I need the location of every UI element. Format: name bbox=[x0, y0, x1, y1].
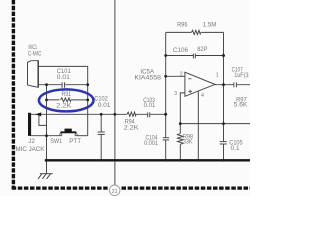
wire op-amp pin3 bbox=[180, 93, 185, 124]
wire pin4 column bbox=[197, 91, 199, 160]
wire node A column bbox=[46, 85, 48, 136]
svg-text:5.6K: 5.6K bbox=[234, 102, 248, 109]
node W1 x long line bbox=[114, 113, 117, 116]
wire feedback top row bbox=[166, 31, 224, 33]
capacitor C103 bbox=[147, 112, 150, 117]
svg-text:1uF(3: 1uF(3 bbox=[234, 72, 249, 79]
resistor R98 bbox=[177, 133, 183, 144]
node bus R98 bbox=[179, 159, 182, 162]
svg-text:J2: J2 bbox=[28, 138, 35, 145]
node bias right bbox=[222, 122, 225, 125]
node C103 out bbox=[164, 113, 167, 116]
svg-text:KIA4558: KIA4558 bbox=[134, 74, 161, 81]
switch SW1 button bbox=[60, 129, 76, 134]
resistor R94 bbox=[127, 112, 136, 117]
op-amp U=IC5A triangle bbox=[185, 72, 215, 96]
svg-text:C106: C106 bbox=[173, 47, 188, 54]
svg-text:4: 4 bbox=[201, 93, 204, 99]
svg-text:C-MIC: C-MIC bbox=[28, 50, 42, 57]
wire R91 row bbox=[47, 99, 88, 101]
wire output row bbox=[215, 84, 250, 86]
wire feedback left column bbox=[165, 32, 167, 160]
svg-text:3: 3 bbox=[174, 91, 177, 97]
microphone MIC1 symbol bbox=[28, 61, 39, 88]
node pin2 bbox=[164, 75, 167, 78]
wire op-amp pin2 bbox=[166, 75, 185, 77]
jack J2 sleeve bar bbox=[28, 113, 31, 136]
svg-text:33K: 33K bbox=[183, 138, 193, 145]
jack tip contact hook bbox=[39, 116, 47, 126]
wire R98 column bbox=[179, 124, 181, 161]
node bias left bbox=[179, 122, 182, 125]
node C106 right bbox=[222, 54, 225, 57]
jack tip contact arrow bbox=[35, 112, 41, 116]
svg-text:R96: R96 bbox=[177, 21, 188, 28]
svg-text:0.001: 0.001 bbox=[144, 140, 158, 147]
op-amp plus sign bbox=[188, 90, 192, 92]
svg-text:SW1: SW1 bbox=[50, 138, 62, 145]
node bus C102 bbox=[100, 159, 103, 162]
node bus C105 bbox=[222, 159, 225, 162]
page reference circle 21 bbox=[109, 185, 120, 196]
node C102 top bbox=[100, 113, 103, 116]
svg-text:2.2K: 2.2K bbox=[124, 125, 140, 132]
svg-text:82P: 82P bbox=[197, 46, 207, 53]
resistor R91 bbox=[60, 98, 72, 102]
wire right column bbox=[223, 32, 225, 160]
node output bbox=[222, 83, 225, 86]
node bus pin4 bbox=[197, 159, 200, 162]
svg-text:2: 2 bbox=[180, 72, 183, 78]
svg-text:2.2K: 2.2K bbox=[56, 103, 72, 110]
svg-text:21: 21 bbox=[112, 189, 118, 195]
capacitor C107 bbox=[233, 82, 237, 87]
svg-text:0.01: 0.01 bbox=[144, 102, 156, 109]
wire mic top bbox=[38, 66, 88, 135]
capacitor C102 bbox=[98, 132, 105, 135]
svg-text:MIC JACK: MIC JACK bbox=[16, 146, 46, 153]
wire bias row bbox=[180, 123, 250, 125]
wire C101 row bbox=[38, 84, 88, 86]
ground bus bbox=[46, 159, 250, 161]
node R91 right bbox=[86, 99, 89, 102]
svg-text:PTT: PTT bbox=[69, 138, 81, 145]
node C101 right bbox=[86, 83, 89, 86]
wire C102 leg bbox=[100, 114, 102, 160]
border bottom dashed bbox=[12, 186, 108, 189]
svg-text:0.01: 0.01 bbox=[98, 102, 111, 109]
node SW jack bbox=[45, 134, 48, 137]
node bus start bbox=[45, 159, 48, 162]
wire ground leg bbox=[46, 136, 48, 174]
wire signal row W1 bbox=[31, 113, 166, 115]
chassis ground bbox=[38, 174, 53, 179]
switch SW1 terminals bbox=[60, 134, 62, 136]
svg-text:1.5M: 1.5M bbox=[203, 21, 217, 28]
border left dashed bbox=[12, 0, 15, 189]
node C106 left bbox=[164, 54, 167, 57]
resistor R96 bbox=[191, 30, 201, 34]
svg-text:1: 1 bbox=[216, 73, 219, 79]
node R91 left bbox=[45, 99, 48, 102]
wire long vertical net bbox=[114, 0, 116, 185]
svg-text:0.1: 0.1 bbox=[231, 145, 240, 152]
wire SW1 row bbox=[31, 135, 60, 137]
capacitor C105 bbox=[220, 141, 227, 144]
capacitor C101 bbox=[61, 83, 65, 86]
node bus C104 bbox=[164, 159, 167, 162]
annotation ellipse around R91 bbox=[39, 89, 94, 111]
capacitor C104 bbox=[163, 137, 169, 140]
wire C106 row bbox=[166, 55, 224, 57]
node C101 left bbox=[45, 83, 48, 86]
capacitor C106 bbox=[193, 54, 196, 59]
svg-text:0.01: 0.01 bbox=[57, 74, 71, 81]
op-amp minus sign bbox=[188, 78, 191, 80]
svg-text:R91: R91 bbox=[62, 91, 72, 98]
